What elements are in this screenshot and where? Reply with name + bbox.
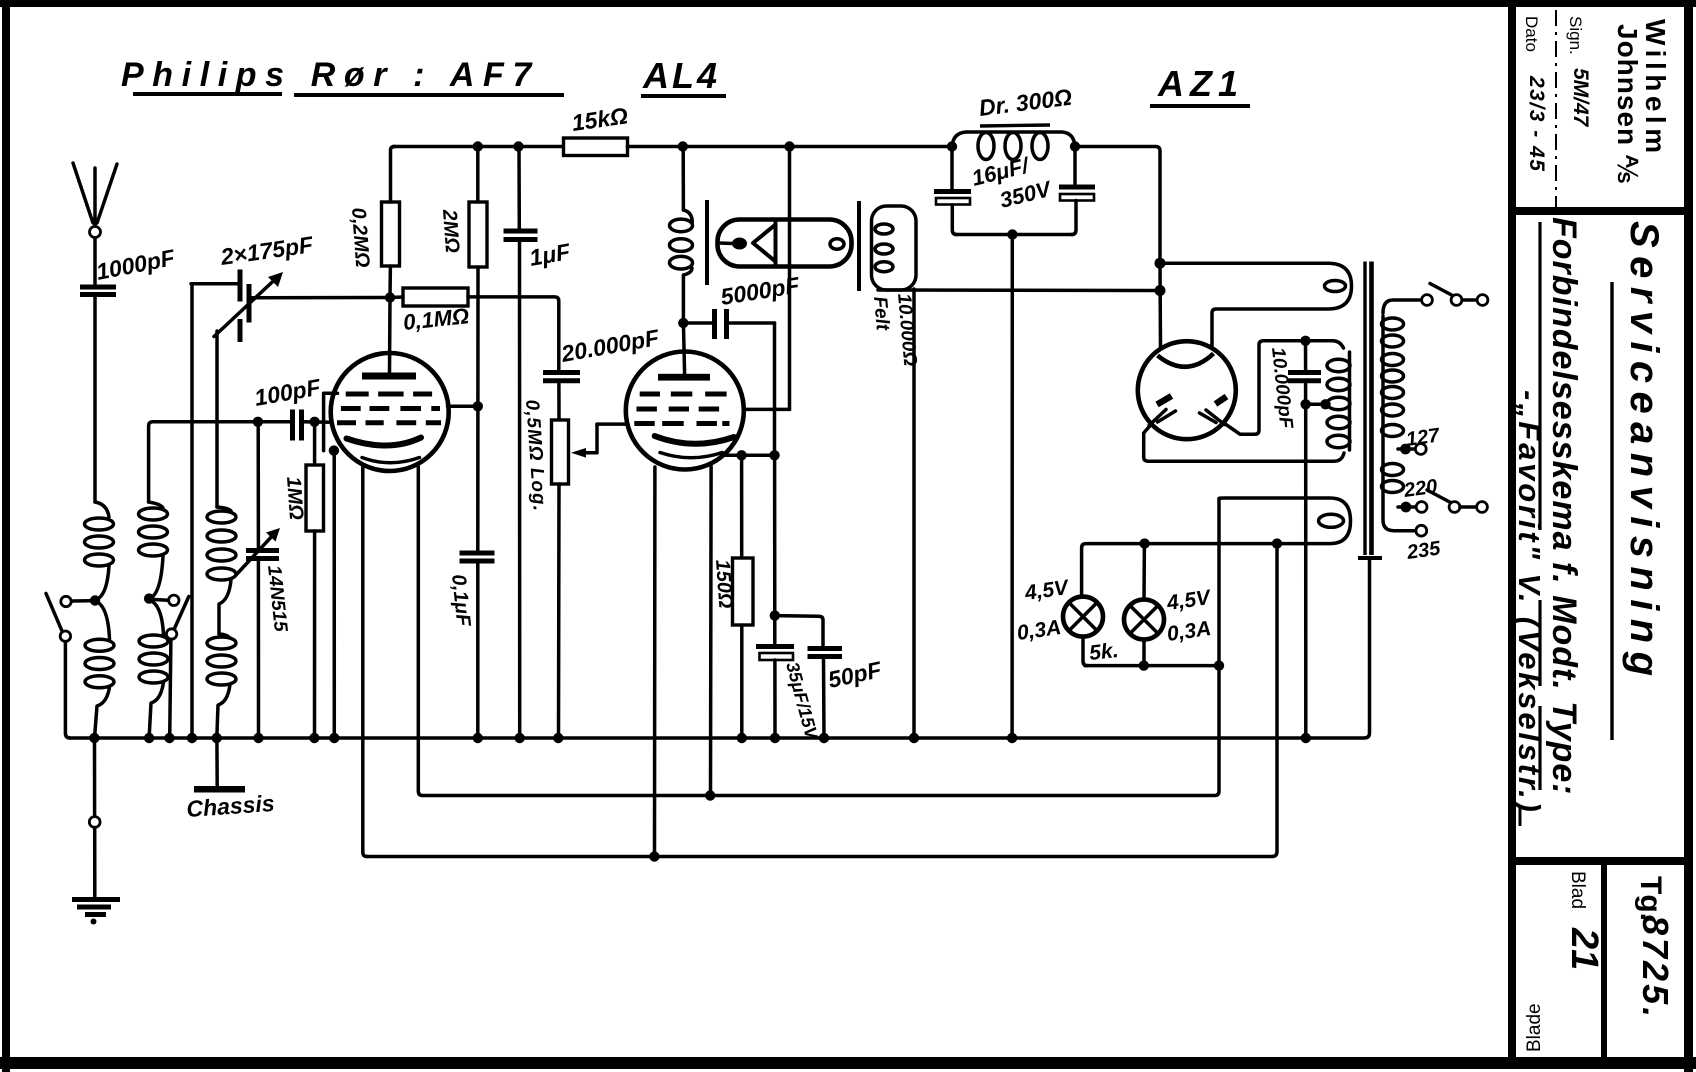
junction lamp2 feed: [1139, 538, 1149, 548]
wire 16uF common bottom: [955, 233, 1073, 237]
junction lamps return: [1139, 660, 1149, 670]
junction field coil bus: [909, 733, 919, 743]
junction 35uF bus: [770, 733, 780, 743]
wire tap to switch S2: [154, 598, 168, 602]
wire HT rail to choke: [628, 145, 953, 149]
AF7 grid row 3: [337, 420, 441, 425]
wire 35uF to bus: [773, 660, 777, 738]
wire 0.1M to 20000pF: [468, 297, 559, 370]
tube AL4 envelope: [626, 352, 744, 470]
capacitor 16uF right electrolytic: [1059, 187, 1095, 201]
junction trimmer bus: [253, 733, 263, 743]
AL4 heater lead right: [709, 466, 713, 796]
switch S1 arm: [46, 594, 62, 632]
capacitor 20000pF: [543, 324, 662, 381]
wire to earth symbol: [93, 828, 97, 898]
resistor 15k: [564, 102, 630, 155]
tube AF7 envelope: [331, 353, 449, 471]
underline Ror AF7: [294, 93, 564, 97]
svg-text:23/3 - 45: 23/3 - 45: [1525, 75, 1548, 172]
wire 1uF top lead: [517, 147, 521, 230]
svg-text:5k.: 5k.: [1088, 639, 1119, 665]
wire 0.2M top to HT rail: [391, 147, 396, 203]
svg-text:2MΩ: 2MΩ: [438, 208, 463, 254]
switch S2 fixed contact: [169, 595, 179, 605]
node grid line tuning junction: [253, 417, 263, 427]
capacitor 16uF left electrolytic: [934, 192, 971, 205]
wire wiper to AL4 grid: [597, 422, 627, 426]
mains primary winding: [1382, 300, 1421, 531]
junction 10000pF bus: [1301, 733, 1311, 743]
junction 150R bus: [737, 733, 747, 743]
tube AZ1 envelope: [1138, 341, 1236, 439]
wire anode into tube: [683, 323, 684, 374]
AL4 grid row 1: [640, 392, 727, 397]
border frame bottom: [0, 1057, 1696, 1069]
svg-text:Forbindelsesskema f. Modt. Typ: Forbindelsesskema f. Modt. Type:: [1545, 217, 1583, 796]
wire 1uF to bus: [518, 242, 522, 739]
junction heater winding riser: [1272, 538, 1282, 548]
resistor 0.1M: [402, 288, 470, 335]
title block divider above bottom section: [1508, 857, 1692, 865]
underline tail: [1519, 806, 1522, 826]
junction AL4 heater return: [705, 790, 715, 800]
coil L2 upper: [139, 502, 168, 599]
node 50pF branch junction: [770, 610, 780, 620]
wire 1M top lead: [313, 422, 317, 465]
AF7 heater lead left: [363, 467, 367, 857]
tap 235 terminal: [1405, 525, 1443, 564]
coil L1 lower: [85, 601, 114, 738]
lamp 1 dial 4.5V: [1015, 576, 1103, 645]
svg-text:5M/47: 5M/47: [1569, 68, 1592, 128]
switch S2 moving contact: [166, 629, 176, 639]
underline AZ1: [1150, 104, 1250, 108]
svg-text:Wilhelm: Wilhelm: [1640, 19, 1671, 158]
AL4 cathode line: [722, 454, 775, 458]
svg-text:Sign.: Sign.: [1566, 16, 1585, 55]
svg-text:150Ω: 150Ω: [711, 559, 736, 610]
wire 16uF left bottom: [952, 205, 957, 235]
wire tuning cap line: [256, 422, 260, 549]
AZ1 anode right: [1200, 397, 1227, 425]
wire AF7 cathode to bus: [332, 452, 336, 738]
junction AL4 heater line: [649, 851, 659, 861]
wire 50pF branch: [775, 616, 823, 646]
AL4 anode bar: [658, 374, 710, 381]
earth terminal circle: [89, 817, 100, 828]
svg-text:Philips Rør : AF7: Philips Rør : AF7: [121, 56, 540, 94]
coil L3: [207, 507, 236, 738]
svg-text:AL4: AL4: [642, 55, 720, 96]
svg-text:Dato: Dato: [1522, 16, 1541, 52]
node filament top cap junction: [1300, 336, 1310, 346]
resistor 2M: [438, 202, 487, 267]
AL4 grid row 3: [634, 421, 729, 426]
capacitor 35uF electrolytic: [756, 647, 822, 744]
wire antenna to coil L1: [93, 296, 97, 502]
node L2 tap junction: [144, 593, 154, 603]
capacitor 1000pF: [80, 244, 178, 294]
junction lamp return riser: [1214, 660, 1224, 670]
chassis symbol: [194, 786, 245, 793]
svg-text:Blad: Blad: [1567, 871, 1588, 909]
wire S2 to bus: [170, 639, 171, 738]
tap 220 with switch: [1398, 476, 1487, 513]
coil L1 upper: [85, 502, 114, 600]
title block bottom section column divider: [1601, 865, 1607, 1062]
node L1 tap junction: [90, 595, 100, 605]
wire HT rail left segment: [393, 145, 564, 149]
title block right border: [1684, 0, 1693, 1072]
AL4 screen lead to HT riser: [744, 408, 790, 412]
capacitor 10000pF: [1267, 341, 1321, 431]
wire tap stub: [1306, 403, 1327, 407]
wire 100pF to grid: [302, 420, 332, 424]
wire trimmer to bus: [257, 561, 261, 739]
node 10000pF tap junction: [1300, 399, 1310, 409]
svg-text:Blade: Blade: [1524, 1003, 1545, 1052]
field coil 10000R: [869, 206, 920, 367]
wire 50pF to bus: [822, 659, 826, 739]
choke Dr.300: [952, 84, 1075, 160]
junction pot bus: [553, 733, 563, 743]
svg-text:8725.: 8725.: [1635, 915, 1676, 1020]
capacitor 5000pF: [683, 272, 802, 339]
junction gang ground bus: [187, 733, 197, 743]
capacitor 50pF: [808, 649, 885, 693]
node winding center tap: [1320, 399, 1330, 409]
HV winding hairpin: [1160, 263, 1352, 347]
wire 0.2M bottom to node: [388, 266, 392, 298]
wire 10000pF to tap: [1304, 383, 1308, 405]
wire 0.1uF to bus: [476, 563, 480, 738]
border frame left: [2, 0, 10, 1072]
wire gang ground side: [190, 284, 194, 738]
AF7 grid row 2: [341, 406, 440, 411]
title block dash-dot divider in header: [1555, 10, 1557, 207]
underline Forbindelsesskema: [1538, 222, 1541, 530]
wire field coil to bus: [912, 289, 916, 738]
output transformer primary coil: [670, 147, 693, 322]
junction 50pF bus: [819, 733, 829, 743]
AL4 grid row 2: [637, 407, 720, 412]
AF7 lower arc: [362, 458, 420, 463]
wire 20000pF to pot: [557, 383, 561, 420]
switch S2 arm: [174, 597, 189, 630]
main chassis bus: [70, 560, 1370, 738]
wire lamp return line: [1085, 664, 1219, 668]
wire lamp1 bottom: [1083, 637, 1088, 666]
node AL4 anode junction: [678, 318, 688, 328]
capacitor 1uF: [504, 231, 573, 271]
svg-text:Felt: Felt: [869, 296, 893, 332]
wire S1 to bus: [65, 642, 70, 739]
wire 2M top to HT rail: [476, 147, 480, 203]
capacitor 100pF: [252, 374, 323, 441]
wire 16uF right top lead: [1073, 147, 1077, 185]
junction L3 bus chassis: [212, 733, 222, 743]
junction choke left: [947, 141, 957, 151]
wire lamp2 bottom: [1142, 640, 1146, 666]
antenna: [73, 163, 117, 284]
wire gang stator to anode node: [250, 296, 390, 300]
wire cathode to 150R: [740, 455, 744, 558]
node grid 1M junction: [309, 417, 319, 427]
wire AF7 g-k link: [324, 393, 338, 450]
mains switch top: [1422, 284, 1488, 306]
AF7 anode bar: [362, 373, 416, 380]
AZ1 filament dome: [1158, 354, 1214, 367]
junction HT riser rail: [784, 141, 794, 151]
trimmer capacitor 14N515: [236, 528, 291, 633]
wire field coil to rectifier node: [878, 288, 1160, 292]
junction 2M HT rail: [473, 141, 483, 151]
HT riser through speaker: [788, 147, 792, 410]
junction 1uF HT rail: [513, 141, 523, 151]
wire earth lead: [93, 738, 97, 817]
underline Modt: [1538, 600, 1541, 686]
lamp 2 dial 4.5V: [1124, 586, 1213, 646]
junction 16uF bottom riser: [1007, 229, 1017, 239]
speaker: [718, 220, 852, 267]
wire grid line top: [149, 422, 292, 502]
AF7 cathode arc: [347, 438, 422, 446]
wire AZ1 filament left out: [1144, 424, 1344, 461]
pot wiper arrow: [580, 424, 597, 453]
svg-text:1MΩ: 1MΩ: [282, 476, 307, 521]
wire AZ1 filament right out: [1225, 341, 1344, 434]
earth ground symbol: [72, 900, 120, 925]
svg-text:Serviceanvisning: Serviceanvisning: [1622, 221, 1666, 684]
variable capacitor 2x175pF gang: [191, 231, 315, 342]
junction 1uF bus: [515, 733, 525, 743]
AF7 heater lead right: [418, 467, 422, 796]
underline AL4: [641, 94, 726, 98]
transformer core: [1358, 262, 1382, 559]
capacitor 0.1uF screen bypass: [447, 553, 494, 628]
speaker core bar left: [857, 201, 861, 291]
title block divider under header section: [1508, 207, 1692, 215]
wire cathode riser to 35uF: [773, 455, 777, 643]
junction screen line bus: [473, 733, 483, 743]
AL4 lower arc: [660, 453, 722, 458]
underline Favorit: [1511, 406, 1514, 534]
node rectifier output upper: [1155, 258, 1166, 269]
node AF7 cathode junction: [329, 445, 339, 455]
switch S1 fixed contact: [61, 596, 71, 606]
wire gang rotor to L3: [215, 331, 219, 507]
heater winding hairpin: [1082, 498, 1351, 596]
wire heater return line: [423, 499, 1220, 796]
junction output coil HT rail: [678, 141, 688, 151]
junction L2 bus: [144, 733, 154, 743]
node rectifier output lower: [1155, 285, 1166, 296]
wire 16uF left top lead: [950, 147, 954, 190]
wire 16uF right bottom: [1072, 201, 1077, 235]
underline Philips: [133, 92, 282, 96]
resistor 1M: [282, 465, 323, 531]
AF7 grid row 1: [346, 392, 432, 397]
wire node to AZ1 anode left: [1158, 263, 1162, 348]
svg-text:21: 21: [1563, 927, 1605, 970]
switch S1 moving contact: [60, 631, 70, 641]
node screen junction: [473, 401, 483, 411]
AF7 anode lead: [388, 298, 392, 373]
wire 16uF common to bus: [1010, 235, 1014, 739]
wire chassis stub: [215, 738, 219, 786]
junction 1M bus: [309, 733, 319, 743]
resistor 150R: [711, 558, 753, 625]
resistor 0.2M anode load: [347, 202, 399, 269]
AL4 cathode arc: [655, 436, 734, 444]
wire 2M bottom through screen node: [476, 267, 480, 551]
wire tap to switch S1: [72, 599, 90, 603]
junction S2 bus: [164, 733, 174, 743]
svg-text:AZ1: AZ1: [1157, 63, 1244, 104]
title block left border: [1508, 7, 1516, 1064]
node anode junction: [385, 292, 395, 302]
underline Vekselstr: [1511, 614, 1514, 798]
junction cathode 5000pF riser: [769, 450, 779, 460]
border frame top: [0, 0, 1696, 7]
junction choke right: [1070, 141, 1080, 151]
wire node to 0.1M: [390, 295, 403, 299]
underline Serviceanvisning: [1610, 282, 1613, 740]
wire 150R to bus: [740, 625, 744, 738]
junction cathode 150R: [736, 450, 746, 460]
svg-text:-„Favorit" V. (Vekselstr.): -„Favorit" V. (Vekselstr.): [1512, 390, 1547, 815]
wire 10000pF line to bus: [1304, 404, 1308, 738]
tap 127: [1398, 424, 1442, 454]
svg-text:0,2MΩ: 0,2MΩ: [347, 207, 373, 269]
output transformer core bar: [705, 200, 709, 285]
junction L1 bus: [89, 733, 99, 743]
wire 1M to bus: [313, 531, 317, 738]
wire HT rail choke to corner: [1075, 147, 1160, 264]
junction AF7 cathode bus: [329, 733, 339, 743]
wire 5000pF riser to cathode line: [773, 323, 777, 455]
wire lamp2 top: [1142, 544, 1146, 600]
junction 16uF bus: [1007, 733, 1017, 743]
coil L2 lower: [139, 600, 168, 738]
svg-text:Johnsen ⅍: Johnsen ⅍: [1612, 24, 1643, 184]
AL4 heater lead left: [653, 467, 657, 857]
AZ1 filament winding: [1327, 352, 1350, 450]
AF7 screen lead: [448, 405, 478, 409]
wire pot bottom to bus: [557, 484, 561, 738]
potentiometer 0.5M log: [521, 399, 568, 513]
AZ1 anode left: [1149, 396, 1176, 426]
underline Type: [1538, 706, 1541, 790]
wire heater line lower: [367, 547, 1277, 857]
